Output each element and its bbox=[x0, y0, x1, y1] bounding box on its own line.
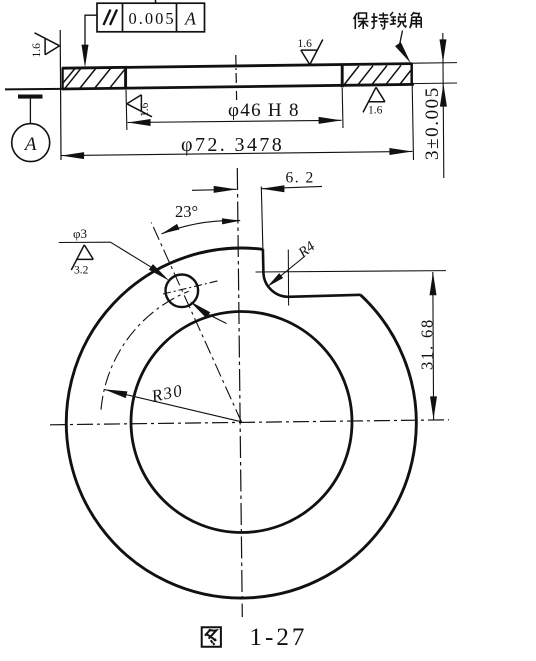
svg-text:1.6: 1.6 bbox=[368, 105, 383, 117]
svg-text:31. 68: 31. 68 bbox=[418, 318, 437, 370]
6.2 dim line right bbox=[261, 186, 322, 188]
frame leader bbox=[85, 15, 97, 47]
svg-text:3±0.005: 3±0.005 bbox=[422, 86, 443, 160]
R4 leader bbox=[271, 257, 305, 284]
fillet center horizontal line bbox=[256, 271, 447, 272]
caption tu glyph bbox=[202, 627, 221, 646]
roughness phi46 left bbox=[127, 95, 152, 117]
datum stem bbox=[29, 99, 31, 124]
datum circle bbox=[12, 124, 50, 162]
6.2 left arrow bbox=[214, 186, 237, 193]
thickness bottom extension bbox=[412, 82, 457, 85]
hole left edge bbox=[124, 67, 127, 89]
phi72 left arrow bbox=[61, 152, 84, 159]
small hole circle bbox=[166, 275, 199, 308]
svg-text:1.6: 1.6 bbox=[31, 43, 43, 58]
frame leader arrow bbox=[82, 45, 89, 68]
R30 dimension line bbox=[105, 390, 242, 422]
datum bar bbox=[18, 95, 43, 99]
datum bottom extension line bbox=[5, 88, 62, 91]
6.2 dim line left bbox=[192, 189, 237, 190]
31.68 dimension line bbox=[432, 272, 435, 420]
phi3 far stub bbox=[206, 313, 227, 324]
phi3 arrow near bbox=[149, 264, 172, 283]
31.68 top arrow bbox=[430, 272, 437, 295]
section centerline bbox=[235, 55, 238, 100]
phi46 left extension bbox=[125, 90, 128, 130]
hatch right block bbox=[344, 65, 411, 85]
note char jiao bbox=[410, 12, 421, 28]
outer circle bbox=[66, 248, 416, 598]
note char bao bbox=[354, 13, 369, 29]
notch vertical edge bbox=[262, 249, 265, 272]
left extension line bbox=[59, 30, 62, 160]
section bottom line bbox=[62, 84, 414, 89]
svg-text:0.005: 0.005 bbox=[128, 9, 175, 28]
roughness bottom right bbox=[363, 87, 385, 112]
svg-text:23°: 23° bbox=[175, 202, 198, 221]
section right edge bbox=[410, 63, 413, 85]
thickness top extension bbox=[412, 62, 457, 65]
phi46 dimension line bbox=[128, 120, 342, 122]
phi3 arrow far bbox=[188, 298, 211, 317]
23deg left arrow bbox=[160, 224, 179, 237]
phi72 dimension line bbox=[61, 151, 413, 155]
svg-text:1-27: 1-27 bbox=[250, 624, 308, 651]
phi3 shelf line bbox=[59, 241, 111, 243]
fillet center vertical line bbox=[287, 250, 289, 306]
6.2 right arrow bbox=[261, 185, 284, 192]
notch vertical extension bbox=[261, 187, 263, 250]
note leader bbox=[400, 31, 403, 44]
feature control frame bbox=[97, 3, 205, 32]
thickness top arrow bbox=[440, 39, 447, 62]
thickness dimension line bbox=[443, 33, 444, 178]
roughness top surface bbox=[301, 40, 323, 65]
inner circle bbox=[131, 312, 352, 533]
phi72 right arrow bbox=[389, 148, 412, 155]
small hole horizontal centerline bbox=[163, 281, 219, 294]
23deg right arrow bbox=[222, 218, 240, 225]
phi46 right arrow bbox=[319, 117, 342, 124]
lower view horizontal centerline bbox=[50, 420, 449, 425]
phi46 left arrow bbox=[128, 119, 151, 126]
radial centerline 23deg bbox=[151, 223, 241, 423]
note arrow bbox=[395, 42, 414, 65]
R30 arrow bbox=[103, 386, 127, 398]
svg-text:φ72. 3478: φ72. 3478 bbox=[181, 134, 284, 156]
phi72 right extension bbox=[412, 85, 413, 160]
svg-text:1.6: 1.6 bbox=[139, 102, 151, 117]
lower view vertical centerline bbox=[237, 168, 242, 617]
notch bottom edge bbox=[288, 295, 360, 297]
svg-text:φ3: φ3 bbox=[73, 226, 87, 241]
23deg arc bbox=[162, 220, 241, 233]
R30 pitch arc bbox=[101, 291, 189, 409]
svg-text:6. 2: 6. 2 bbox=[286, 170, 315, 187]
svg-text:A: A bbox=[184, 9, 196, 29]
section top line bbox=[62, 64, 412, 69]
31.68 bottom arrow bbox=[430, 396, 437, 419]
svg-text:1.6: 1.6 bbox=[298, 38, 313, 50]
section left edge bbox=[61, 68, 63, 90]
phi3 leader bbox=[111, 242, 155, 269]
roughness 3.2 symbol bbox=[71, 245, 93, 270]
R4 arrow bbox=[265, 273, 283, 289]
note char chi bbox=[371, 13, 388, 30]
thickness bottom arrow bbox=[440, 84, 447, 107]
note char rui bbox=[390, 12, 407, 27]
roughness left rotated bbox=[35, 33, 60, 55]
svg-text:A: A bbox=[23, 134, 37, 155]
parallelism symbol bbox=[104, 10, 118, 26]
tiny scan tick above frame bbox=[155, 0, 157, 3]
notch fillet R4 bbox=[263, 272, 288, 297]
hole right edge bbox=[341, 65, 344, 87]
phi46 right extension bbox=[341, 88, 344, 128]
hatch left block bbox=[63, 68, 125, 88]
svg-text:3.2: 3.2 bbox=[74, 265, 89, 277]
svg-text:φ46 H 8: φ46 H 8 bbox=[228, 100, 300, 121]
